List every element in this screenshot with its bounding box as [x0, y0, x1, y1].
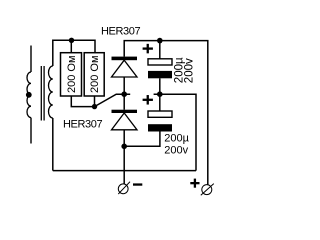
capacitor C1 plus mark	[143, 44, 153, 54]
transformer T1 primary winding	[27, 72, 31, 118]
wire R1 top lead	[70, 40, 72, 52]
node junction R1 top	[69, 38, 74, 43]
terminal plus output	[201, 184, 214, 196]
resistor R2 200 Ом	[84, 53, 104, 96]
svg-text:HER307: HER307	[63, 118, 102, 130]
wire secondary top to resistors	[53, 40, 95, 66]
node junction C1-C2 midpoint	[157, 91, 163, 97]
wire D1 anode to D2 cathode	[123, 77, 125, 110]
label C1 value 200µ 200v rotated	[174, 57, 196, 83]
svg-text:200v: 200v	[184, 58, 196, 83]
transformer T1 core	[41, 66, 44, 121]
capacitor C1 200µ 200v	[148, 41, 172, 95]
capacitor C2 plus mark	[143, 95, 153, 105]
node junction D1-D2	[121, 91, 127, 97]
wire D2 anode down to minus terminal	[123, 130, 125, 184]
wire D2 anode to C2 bottom	[124, 132, 160, 147]
resistor R1 200 Ом	[61, 53, 82, 96]
diode D1 HER307	[112, 57, 138, 77]
diode D2 HER307	[112, 110, 138, 130]
wire bottom rail	[53, 170, 196, 172]
node junction resistor bottoms	[92, 104, 97, 109]
transformer T1 phase dot	[26, 92, 32, 98]
transformer T1 secondary winding	[49, 66, 53, 118]
label C2 value 200µ 200v	[164, 132, 189, 156]
node junction C1 top	[157, 38, 163, 44]
transformer T1 primary top lead	[30, 46, 32, 73]
svg-text:200µ: 200µ	[164, 132, 189, 144]
wire top plus rail	[124, 41, 208, 185]
transformer T1 primary bottom lead	[30, 118, 32, 144]
label plus sign output	[190, 179, 199, 188]
capacitor C2 200µ 200v	[148, 94, 172, 131]
wire midpoint node to bottom rail	[154, 94, 196, 170]
label minus sign	[133, 183, 142, 185]
node junction D2 anode	[121, 144, 127, 150]
wire secondary bottom lead	[52, 118, 54, 171]
svg-text:200 Ом: 200 Ом	[89, 55, 101, 93]
svg-text:HER307: HER307	[101, 25, 140, 37]
svg-text:200 Ом: 200 Ом	[66, 55, 78, 93]
svg-text:200v: 200v	[164, 145, 188, 157]
wire R1 R2 bottoms	[71, 94, 130, 106]
terminal minus output	[118, 182, 130, 194]
